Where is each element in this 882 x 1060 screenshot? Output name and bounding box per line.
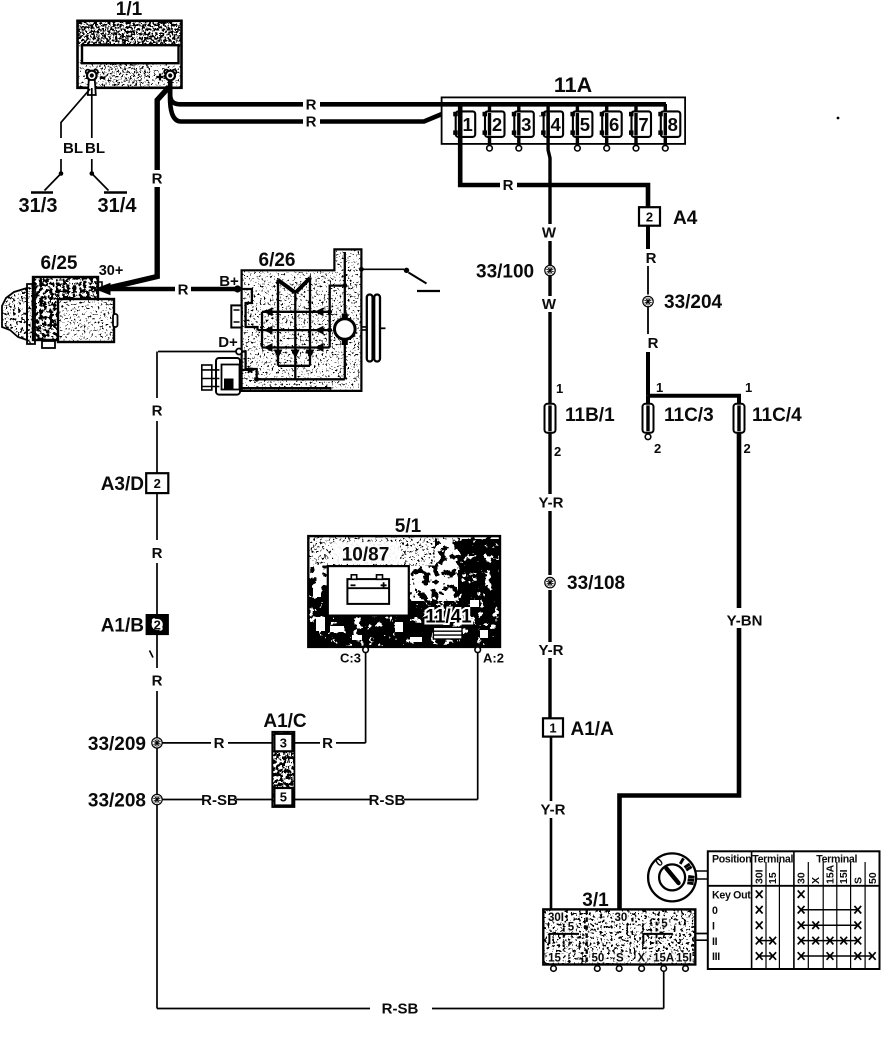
- svg-text:5: 5: [661, 918, 668, 930]
- svg-text:1: 1: [549, 721, 556, 736]
- svg-text:30I: 30I: [548, 912, 564, 924]
- svg-text:R: R: [152, 171, 163, 188]
- svg-text:Y-BN: Y-BN: [727, 613, 763, 630]
- svg-text:8: 8: [668, 114, 678, 135]
- svg-text:A3/D: A3/D: [101, 474, 144, 495]
- svg-text:R: R: [646, 250, 657, 267]
- svg-text:X: X: [637, 953, 645, 965]
- svg-text:30+: 30+: [99, 263, 124, 279]
- svg-text:2: 2: [554, 444, 561, 459]
- svg-text:R: R: [214, 735, 225, 752]
- svg-text:R: R: [178, 282, 189, 299]
- svg-text:31/4: 31/4: [98, 195, 138, 217]
- svg-text:15: 15: [767, 872, 779, 884]
- svg-text:BL: BL: [85, 140, 105, 157]
- svg-text:R-SB: R-SB: [369, 792, 406, 809]
- svg-text:1: 1: [656, 380, 663, 395]
- svg-text:3: 3: [280, 735, 287, 750]
- svg-text:A1/B: A1/B: [101, 616, 144, 637]
- svg-text:Terminal: Terminal: [752, 854, 793, 866]
- svg-text:5/1: 5/1: [395, 516, 422, 537]
- svg-text:10/87: 10/87: [342, 545, 390, 566]
- svg-text:11A: 11A: [554, 73, 592, 97]
- svg-text:R: R: [306, 114, 317, 131]
- svg-text:6: 6: [609, 114, 619, 135]
- svg-text:R: R: [306, 97, 317, 114]
- svg-text:A1/C: A1/C: [263, 711, 307, 732]
- svg-text:15I: 15I: [676, 953, 692, 965]
- svg-text:X: X: [810, 877, 822, 884]
- svg-text:R: R: [152, 545, 163, 562]
- svg-text:5: 5: [280, 790, 287, 805]
- svg-text:1/1: 1/1: [116, 0, 143, 20]
- svg-text:R-SB: R-SB: [201, 792, 238, 809]
- svg-text:11B/1: 11B/1: [565, 405, 615, 426]
- svg-text:2: 2: [654, 441, 661, 456]
- svg-text:3: 3: [521, 114, 531, 135]
- svg-text:BL: BL: [63, 140, 83, 157]
- svg-text:33/208: 33/208: [88, 791, 146, 812]
- svg-text:2: 2: [646, 210, 653, 225]
- svg-text:31/3: 31/3: [19, 195, 58, 217]
- svg-text:3/1: 3/1: [582, 890, 609, 911]
- svg-text:A1/A: A1/A: [571, 719, 615, 740]
- svg-text:W: W: [542, 296, 557, 313]
- svg-text:2: 2: [154, 618, 161, 633]
- svg-text:30: 30: [796, 872, 808, 884]
- svg-text:R: R: [152, 673, 163, 690]
- svg-text:0: 0: [712, 905, 718, 917]
- svg-text:7: 7: [638, 114, 648, 135]
- svg-text:R: R: [152, 403, 163, 420]
- svg-text:2: 2: [744, 441, 751, 456]
- svg-text:S: S: [852, 877, 864, 884]
- svg-text:Y-R: Y-R: [538, 495, 563, 512]
- svg-text:33/209: 33/209: [88, 734, 146, 755]
- svg-text:III: III: [712, 951, 720, 963]
- svg-text:1: 1: [463, 114, 473, 135]
- svg-text:R-SB: R-SB: [382, 1000, 419, 1017]
- svg-text:6/25: 6/25: [41, 253, 78, 274]
- svg-text:R: R: [648, 335, 659, 352]
- svg-text:15A: 15A: [825, 864, 837, 884]
- svg-text:2: 2: [154, 476, 161, 491]
- svg-text:33/108: 33/108: [567, 573, 625, 594]
- svg-text:15: 15: [548, 953, 561, 965]
- svg-text:50: 50: [867, 872, 879, 884]
- svg-text:1: 1: [745, 380, 752, 395]
- svg-text:R: R: [322, 735, 333, 752]
- svg-text:30I: 30I: [754, 869, 766, 884]
- svg-text:D+: D+: [218, 334, 238, 351]
- svg-text:15A: 15A: [653, 953, 674, 965]
- svg-text:Key Out: Key Out: [712, 889, 751, 901]
- svg-text:II: II: [712, 936, 718, 948]
- svg-text:4: 4: [550, 114, 561, 135]
- svg-text:S: S: [616, 953, 624, 965]
- svg-text:5: 5: [580, 114, 590, 135]
- svg-text:11C/3: 11C/3: [664, 405, 714, 426]
- svg-text:5: 5: [568, 922, 575, 934]
- svg-text:Terminal: Terminal: [816, 854, 857, 866]
- svg-text:15I: 15I: [838, 869, 850, 884]
- svg-text:50: 50: [592, 953, 605, 965]
- svg-text:I: I: [712, 920, 715, 932]
- svg-text:W: W: [542, 225, 557, 242]
- svg-text:A:2: A:2: [483, 651, 504, 666]
- svg-text:11/41: 11/41: [425, 607, 472, 628]
- svg-text:Position: Position: [712, 854, 751, 866]
- svg-text:R: R: [503, 177, 514, 194]
- svg-text:Y-R: Y-R: [538, 642, 563, 659]
- svg-text:11C/4: 11C/4: [752, 405, 802, 426]
- svg-text:33/204: 33/204: [664, 292, 723, 313]
- svg-text:C:3: C:3: [340, 651, 361, 666]
- svg-text:6/26: 6/26: [259, 250, 296, 271]
- svg-text:33/100: 33/100: [476, 262, 534, 283]
- svg-text:A4: A4: [673, 208, 698, 229]
- svg-text:Y-R: Y-R: [540, 802, 565, 819]
- svg-text:2: 2: [492, 114, 502, 135]
- svg-text:30: 30: [615, 912, 628, 924]
- svg-text:1: 1: [556, 381, 563, 396]
